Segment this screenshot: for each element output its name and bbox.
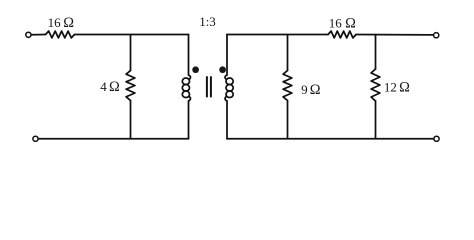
wire R4 to terminal top-right (junction at x=375.5) — [356, 34, 433, 36]
polarity dot secondary — [219, 66, 226, 73]
resistor R2 4 ohm (shunt) — [126, 71, 135, 101]
wire transformer primary bottom lead — [189, 97, 191, 139]
transformer secondary coil loop 2 — [226, 85, 233, 92]
svg-text:4Ω: 4Ω — [100, 79, 120, 95]
wire 9-ohm branch upper — [287, 35, 289, 71]
wire bottom right rail — [227, 138, 433, 140]
transformer primary coil loop 2 — [182, 85, 189, 92]
wire secondary top rail to R4 — [227, 34, 328, 36]
wire 12-ohm branch upper — [375, 35, 377, 69]
wire terminal to R1 — [32, 34, 46, 36]
resistor R3 9 ohm (shunt) — [283, 71, 292, 101]
resistor R1 16 ohm (series, left) — [46, 31, 75, 38]
svg-text:9Ω: 9Ω — [301, 82, 321, 98]
transformer core line right — [210, 76, 212, 97]
terminal bottom-left — [33, 136, 38, 141]
wire 4-ohm branch upper — [130, 35, 132, 71]
wire transformer secondary bottom lead — [225, 97, 227, 139]
wire 12-ohm branch lower — [375, 101, 377, 139]
terminal top-right — [434, 33, 439, 38]
terminal bottom-right — [434, 136, 439, 141]
svg-text:1:3: 1:3 — [199, 14, 216, 29]
transformer secondary coil loop 3 — [226, 91, 233, 98]
polarity dot primary — [192, 66, 199, 73]
terminal top-left — [26, 32, 31, 37]
resistor R5 12 ohm (shunt) — [371, 69, 380, 101]
resistor R4 16 ohm (series, right) — [328, 31, 356, 38]
wire transformer secondary top lead — [225, 35, 227, 80]
wire R1 to transformer primary top (junction node A at x=130.5) — [75, 34, 189, 36]
transformer core line left — [206, 76, 208, 97]
transformer secondary coil loop 1 — [226, 78, 233, 85]
transformer primary coil loop 3 — [182, 91, 189, 98]
wire 9-ohm branch lower — [287, 101, 289, 139]
transformer primary coil loop 1 — [182, 78, 189, 85]
wire bottom left rail — [39, 138, 189, 140]
wire 4-ohm branch lower — [130, 101, 132, 139]
wire transformer primary top lead — [189, 35, 191, 80]
